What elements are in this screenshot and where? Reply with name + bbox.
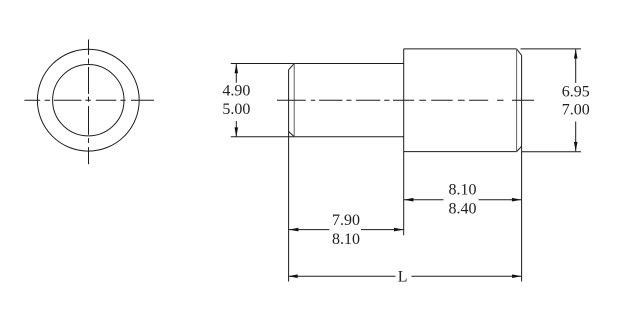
large cylinder top edge xyxy=(404,48,517,50)
svg-text:7.00: 7.00 xyxy=(562,101,590,118)
dimension line 6.95/7.00 xyxy=(575,49,577,151)
bottom right extension line xyxy=(522,151,582,153)
svg-text:7.90: 7.90 xyxy=(332,212,360,229)
svg-text:8.40: 8.40 xyxy=(449,200,477,217)
vertical centerline (end view) xyxy=(88,40,90,165)
top right extension line xyxy=(521,48,582,50)
large cylinder bottom edge xyxy=(404,151,517,153)
chamfer diagonal bottom-left xyxy=(289,132,295,137)
large cylinder right end face + extension line down xyxy=(521,55,523,281)
outer circle (end view) xyxy=(37,49,139,151)
arrowhead right 8.10/8.40 dim xyxy=(512,198,522,202)
arrowhead up 6.95 dim xyxy=(574,49,578,59)
arrowhead down 7.00 dim xyxy=(574,142,578,152)
dimension line 4.90/5.00 xyxy=(235,64,237,137)
arrowhead right L dim xyxy=(512,274,522,278)
dimension line 7.90/8.10 xyxy=(289,229,403,231)
dimension line L xyxy=(288,275,521,277)
chamfer diagonal bottom-right xyxy=(517,146,522,151)
arrowhead right 7.90/8.10 dim xyxy=(394,228,404,232)
small cylinder bottom edge + left extension line xyxy=(231,136,404,138)
small cylinder left end face + extension line down xyxy=(288,70,290,282)
chamfer diagonal top-left xyxy=(289,64,295,70)
arrowhead down 5.00 dim xyxy=(235,127,239,136)
svg-text:4.90: 4.90 xyxy=(222,82,250,99)
arrowhead left 7.90/8.10 dim xyxy=(289,228,299,232)
arrowhead up 4.90 dim xyxy=(235,64,239,73)
arrowhead left L dim xyxy=(288,274,298,278)
dimension line 8.10/8.40 xyxy=(404,199,521,201)
arrowhead left 8.10/8.40 dim xyxy=(404,198,414,202)
svg-text:L: L xyxy=(398,268,408,285)
horizontal centerline (end view) xyxy=(24,99,154,101)
svg-text:6.95: 6.95 xyxy=(562,84,590,101)
side view centerline xyxy=(277,99,534,101)
svg-text:8.10: 8.10 xyxy=(449,182,477,199)
chamfer edge line right xyxy=(516,49,518,152)
svg-text:5.00: 5.00 xyxy=(222,101,250,118)
inner circle (end view) xyxy=(53,65,124,136)
chamfer edge line left xyxy=(293,64,295,137)
shoulder face + extension line down xyxy=(403,49,405,235)
chamfer diagonal top-right xyxy=(517,49,522,55)
small cylinder top edge + left extension line xyxy=(231,63,404,65)
svg-text:8.10: 8.10 xyxy=(332,231,360,248)
